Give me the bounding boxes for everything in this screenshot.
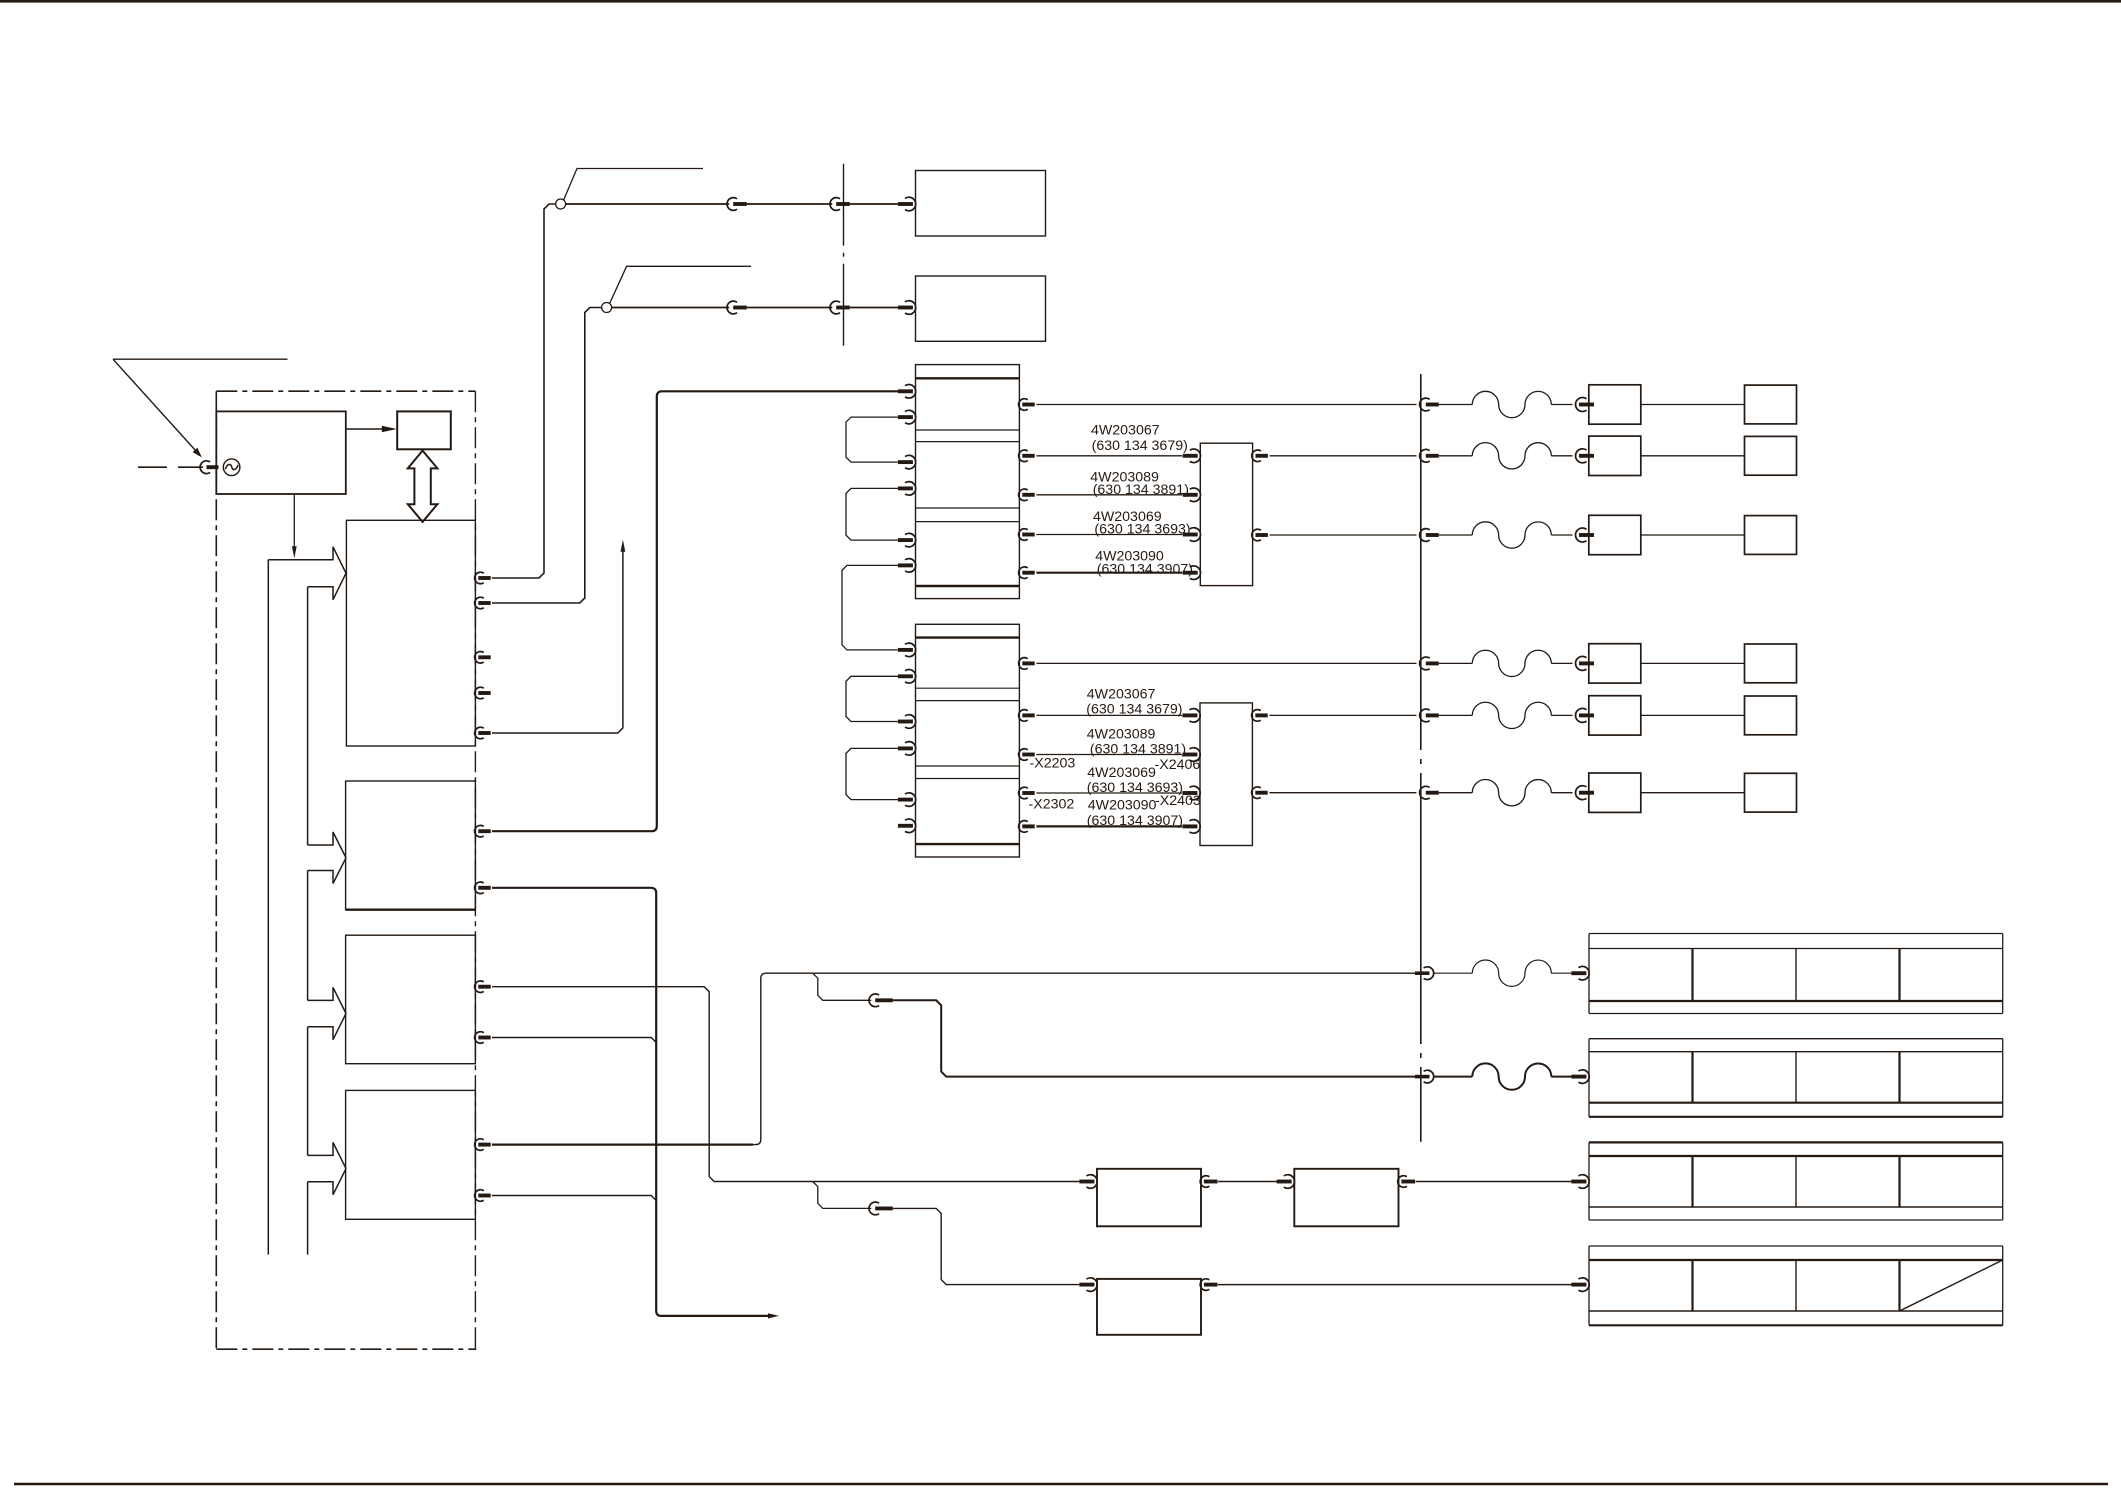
relay box M1 <box>1097 1169 1201 1227</box>
strip T1 flexible conduit <box>1472 960 1551 986</box>
label -X2403 <box>1155 793 1201 809</box>
wire M2 to strip T3 <box>1416 1181 1572 1183</box>
svg-text:-X2203: -X2203 <box>1030 756 1076 772</box>
wire ECU K7 to bottom continuation arrow <box>492 888 779 1319</box>
wire ECU K9 merging into bundle <box>492 1038 656 1043</box>
dash-dot boundary line W2 (top rows) <box>843 164 845 347</box>
connector into 4W-block g1 w3 <box>1183 528 1201 542</box>
row A4 load box <box>1745 644 1797 683</box>
row A2 wire actuator to load <box>1641 455 1745 457</box>
bus line B segments <box>307 587 309 1255</box>
svg-text:(630 134 3693): (630 134 3693) <box>1094 521 1190 537</box>
label -X2302 <box>1029 797 1075 813</box>
wire ECU K8 to relay M1 <box>492 987 1080 1182</box>
4W junction block g1 right pin r1 <box>1252 450 1268 462</box>
svg-text:-X2406: -X2406 <box>1155 757 1201 773</box>
row A2 wire after flex <box>1551 455 1572 457</box>
arrow AC box to CPU <box>292 494 297 558</box>
row A5 flexible conduit <box>1472 702 1551 728</box>
relay box M3 left connector <box>1079 1278 1097 1292</box>
connector block X1 left pin p2 <box>898 410 916 424</box>
dashed mains input wire <box>138 466 203 468</box>
row-1 inline connector pair 2 <box>830 198 850 211</box>
row-2 device connector <box>898 301 916 315</box>
bus line A (long vertical) <box>267 560 269 1255</box>
connector block X1 body <box>916 365 1020 599</box>
row A1 connector at actuator <box>1575 398 1594 412</box>
ECU edge connector K3 (stub) <box>475 651 491 663</box>
interference suppressor box <box>397 411 451 449</box>
connector into 4W-block g2 w2 <box>1182 748 1200 762</box>
row A6 connector at actuator <box>1575 786 1594 800</box>
wire 4W203090 (g1) <box>1036 572 1182 574</box>
row A2 boundary connector <box>1420 449 1439 462</box>
ECU edge connector K8 <box>475 981 491 993</box>
connector block X2 body <box>916 624 1020 857</box>
inline connector on branch B <box>869 1202 893 1215</box>
ECU edge connector K2 <box>475 597 491 609</box>
AC source symbol (~ in circle) <box>223 459 240 476</box>
row A4 connector at actuator <box>1575 656 1594 670</box>
row A4 wire after flex <box>1551 662 1572 664</box>
4W junction block g1 right pin r2 <box>1252 529 1268 541</box>
label 4W203090 (g1) <box>1095 549 1193 578</box>
row A2 wire to boundary <box>1270 455 1417 457</box>
loop wire X2 p2-p3 <box>846 676 898 721</box>
strip T1 wire after flex <box>1551 972 1572 974</box>
strip T1 wire to flex <box>1434 972 1473 974</box>
row A2 wire to flex <box>1439 455 1473 457</box>
row-1 inline connector pair 1 <box>727 198 747 211</box>
ECU driver box 2 <box>346 781 476 910</box>
label 4W203067 (g1) <box>1091 422 1188 454</box>
strip T2 wire after flex <box>1551 1076 1572 1078</box>
loop wire X1 p6 to X2 p1 <box>842 565 898 650</box>
strip T3 connector <box>1571 1175 1589 1189</box>
row A6 wire actuator to load <box>1641 792 1745 794</box>
label -X2203 <box>1030 756 1076 772</box>
strip T4 connector <box>1571 1278 1589 1292</box>
row-2 device box <box>916 276 1046 341</box>
label 4W203089 (g1) <box>1090 470 1189 498</box>
wire 4W203069 (g2) <box>1036 792 1182 794</box>
connector block X2 right pin q4 <box>1019 787 1035 799</box>
row A5 wire after flex <box>1551 714 1572 716</box>
wire ECU K5 with up-arrow (to other harness) <box>492 540 625 733</box>
row-1 callout leader <box>564 169 703 201</box>
loop wire X1 p4-p5 <box>846 488 898 540</box>
row A6 flexible conduit <box>1472 780 1551 806</box>
row A3 flexible conduit <box>1472 522 1551 548</box>
connector X-in at AC box <box>200 461 218 474</box>
connector block X1 left pin p6 <box>898 559 916 573</box>
connector block X1 right pin q1 <box>1019 399 1035 411</box>
terminal strip T1 <box>1589 934 2003 1014</box>
row-2 inline connector pair 1 <box>727 301 747 314</box>
row A1 wire actuator to load <box>1641 404 1745 406</box>
row-1 node circle <box>556 199 566 209</box>
ECU edge connector K9 <box>475 1032 491 1044</box>
connector block X1 right pin q3 <box>1019 489 1035 501</box>
terminal strip T3 <box>1589 1142 2003 1220</box>
row A4 actuator box <box>1589 644 1641 683</box>
ECU edge connector K6 <box>475 825 491 837</box>
label -X2406 <box>1155 757 1201 773</box>
wire ECU K1 to antenna row 1 <box>492 204 556 578</box>
row-2 callout leader <box>610 266 751 303</box>
branch A wire to terminal strip 2 <box>893 1000 1415 1076</box>
row A5 wire to flex <box>1439 714 1473 716</box>
relay box M1 right connector <box>1200 1176 1217 1188</box>
bottom rule line <box>14 1483 2108 1485</box>
row-2 node circle <box>602 303 612 313</box>
bus arrow pair into driver box 4 <box>308 1142 346 1194</box>
row A4 wire actuator to load <box>1641 662 1745 664</box>
row A1 boundary connector <box>1420 398 1439 411</box>
row A1 actuator box <box>1589 385 1641 424</box>
row A2 actuator box <box>1589 436 1641 475</box>
strip T1 connector <box>1571 966 1589 980</box>
connector block X1 left pin p1 <box>898 385 916 399</box>
connector block X1 left pin p3 <box>898 455 916 469</box>
bus arrow pair into CPU box <box>268 547 346 600</box>
connector block X1 right pin q4 <box>1019 529 1035 541</box>
relay box M3 right connector <box>1200 1279 1217 1291</box>
label 4W203069 (g2) <box>1087 765 1183 796</box>
connector into 4W-block g1 w1 <box>1183 449 1201 463</box>
ECU edge connector K5 <box>475 727 491 739</box>
row A5 wire actuator to load <box>1641 714 1745 716</box>
row A2 load box <box>1745 436 1797 475</box>
row A2 flexible conduit <box>1472 443 1551 469</box>
row A6 actuator box <box>1589 773 1641 812</box>
svg-text:(630 134 3891): (630 134 3891) <box>1090 741 1186 757</box>
bus arrow pair into driver box 3 <box>308 987 346 1039</box>
connector into 4W-block g1 w2 <box>1183 488 1201 502</box>
relay box M1 left connector <box>1079 1175 1097 1189</box>
row A3 boundary connector <box>1420 529 1439 542</box>
svg-text:(630 134 3679): (630 134 3679) <box>1086 701 1182 717</box>
label 4W203090 (g2) <box>1087 798 1183 829</box>
svg-text:(630 134 3891): (630 134 3891) <box>1093 482 1189 498</box>
relay box M3 <box>1097 1279 1201 1335</box>
svg-text:(630 134 3679): (630 134 3679) <box>1092 438 1188 454</box>
wire ECU K2 to antenna row 2 <box>492 308 602 604</box>
row-1 device box <box>916 171 1046 237</box>
4W junction block g1 <box>1200 443 1252 585</box>
terminal strip T2 <box>1589 1039 2003 1117</box>
strip T2 connector <box>1571 1070 1589 1084</box>
connector block X1 right pin q5 <box>1019 567 1035 579</box>
row A6 wire to boundary <box>1269 792 1416 794</box>
branch jog to fuse link row A <box>813 973 872 1000</box>
relay box M2 right connector <box>1398 1176 1415 1188</box>
row A3 wire after flex <box>1551 534 1572 536</box>
wire 4W203090 (g2) <box>1036 825 1182 827</box>
row A6 load box <box>1745 773 1797 812</box>
row A1 wire to flex <box>1439 404 1473 406</box>
double-headed data arrow <box>408 451 438 522</box>
loop wire X2 p4-p5 <box>846 748 898 799</box>
wire ECU K10 to terminal strip 1 <box>492 973 1415 1144</box>
wire M3 to strip T4 <box>1218 1284 1572 1286</box>
connector block X2 left pin p3 <box>898 715 916 729</box>
wire ECU K6 to connector block X1 pin1 <box>492 391 898 831</box>
connector block X1 left pin p5 <box>898 533 916 547</box>
wire 4W203089 (g1) <box>1036 494 1182 496</box>
bus arrow pair into driver box 2 <box>308 832 346 884</box>
relay box M2 <box>1294 1169 1398 1227</box>
wire 4W203067 (g2) <box>1036 714 1182 716</box>
wire M1 to M2 <box>1218 1181 1277 1183</box>
row-2 wire segment b <box>747 307 832 309</box>
relay box M2 left connector <box>1277 1175 1295 1189</box>
ECU driver box 3 <box>346 935 476 1063</box>
row A1 wire after flex <box>1551 404 1572 406</box>
loop wire X1 p2-p3 <box>846 417 898 462</box>
AC power-supply box <box>216 411 345 494</box>
wire 4W203067 (g1) <box>1036 455 1182 457</box>
4W junction block g2 right pin r2 <box>1252 787 1268 799</box>
svg-text:(630 134 3907): (630 134 3907) <box>1097 562 1193 578</box>
row-2 inline connector pair 2 <box>830 301 850 314</box>
row A3 connector at actuator <box>1575 528 1594 542</box>
row A1 flexible conduit <box>1472 391 1551 417</box>
row A4 wire to flex <box>1439 662 1473 664</box>
strip T2 boundary connector <box>1415 1070 1434 1083</box>
row A5 connector at actuator <box>1575 708 1594 722</box>
dash-dot enclosure W1 (control unit boundary) <box>216 391 476 1349</box>
connector block X2 left pin p4 <box>898 742 916 756</box>
connector into 4W-block g2 w3 <box>1182 786 1200 800</box>
connector block X2 left pin p5 <box>898 793 916 807</box>
row A3 wire to boundary <box>1270 534 1417 536</box>
row A5 boundary connector <box>1420 709 1439 722</box>
row A4 boundary connector <box>1420 657 1439 670</box>
connector block X2 left pin p1 <box>898 643 916 657</box>
svg-text:4W203090: 4W203090 <box>1088 798 1157 814</box>
row A1 wire to boundary <box>1036 404 1416 406</box>
svg-text:4W203067: 4W203067 <box>1087 686 1156 702</box>
4W junction block g2 right pin r1 <box>1252 710 1268 722</box>
connector into 4W-block g1 w4 <box>1183 566 1201 580</box>
strip T1 boundary connector <box>1415 967 1434 980</box>
terminal strip T4 <box>1589 1246 2003 1325</box>
strip T2 flexible conduit <box>1472 1063 1551 1089</box>
wire 4W203089 (g2) <box>1036 754 1182 756</box>
connector into 4W-block g2 w4 <box>1182 820 1200 834</box>
connector block X2 right pin q2 <box>1019 710 1035 722</box>
row-1 wire segment a <box>566 203 730 205</box>
row A6 wire after flex <box>1551 792 1572 794</box>
svg-text:4W203069: 4W203069 <box>1087 765 1156 781</box>
connector into 4W-block g2 w1 <box>1182 709 1200 723</box>
branch B wire to relay M3 <box>893 1208 1081 1284</box>
row A6 boundary connector <box>1420 786 1439 799</box>
row-1 device connector <box>898 197 916 211</box>
connector block X1 left pin p4 <box>898 482 916 496</box>
row-2 wire segment a <box>612 307 730 309</box>
branch jog to relay M3 <box>813 1182 872 1209</box>
ECU edge connector K1 <box>475 572 491 584</box>
strip T2 wire to flex <box>1434 1076 1473 1078</box>
svg-text:-X2302: -X2302 <box>1029 797 1075 813</box>
ECU driver box 4 <box>346 1090 476 1219</box>
row A5 actuator box <box>1589 696 1641 735</box>
connector block X2 right pin q3 <box>1019 749 1035 761</box>
inline connector on branch A <box>869 994 893 1007</box>
row A5 load box <box>1745 696 1797 735</box>
top border bar <box>0 0 2121 3</box>
row A6 wire to flex <box>1439 792 1473 794</box>
row-1 wire segment b <box>747 203 832 205</box>
connector block X2 left pin p2 <box>898 670 916 684</box>
ECU edge connector K7 <box>475 882 491 894</box>
row A3 load box <box>1745 516 1797 555</box>
row A1 load box <box>1745 385 1797 424</box>
row A2 connector at actuator <box>1575 449 1594 463</box>
label 4W203067 (g2) <box>1086 686 1182 717</box>
ECU edge connector K10 <box>475 1139 491 1151</box>
ECU main CPU box <box>346 520 475 746</box>
connector block X2 left pin p6 (stub) <box>898 819 916 833</box>
svg-text:-X2403: -X2403 <box>1155 793 1201 809</box>
dash-dot boundary line W3 (right) <box>1420 374 1422 1142</box>
row A4 flexible conduit <box>1472 650 1551 676</box>
row A5 wire to boundary <box>1269 714 1416 716</box>
wire ECU K11 merging into bundle <box>492 1196 656 1201</box>
svg-text:4W203089: 4W203089 <box>1087 726 1156 742</box>
label 4W203089 (g2) <box>1087 726 1186 757</box>
connector block X1 right pin q2 <box>1019 450 1035 462</box>
row-2 wire segment c <box>850 307 898 309</box>
connector block X2 right pin q5 <box>1019 821 1035 833</box>
row A3 wire actuator to load <box>1641 534 1745 536</box>
svg-text:(630 134 3907): (630 134 3907) <box>1087 813 1183 829</box>
label 4W203069 (g1) <box>1093 509 1191 537</box>
callout leader line (mains input) <box>113 359 288 457</box>
4W junction block g2 <box>1200 703 1252 846</box>
row-1 wire segment c <box>850 203 898 205</box>
row A3 wire to flex <box>1439 534 1473 536</box>
ECU edge connector K11 <box>475 1190 491 1202</box>
svg-text:4W203067: 4W203067 <box>1091 422 1160 438</box>
wire 4W203069 (g1) <box>1036 534 1182 536</box>
row A4 wire to boundary <box>1036 662 1416 664</box>
row A3 actuator box <box>1589 515 1641 554</box>
ECU edge connector K4 (stub) <box>475 687 491 699</box>
connector block X2 right pin q1 <box>1019 658 1035 670</box>
wire AC box to interference-suppressor box <box>346 426 397 432</box>
